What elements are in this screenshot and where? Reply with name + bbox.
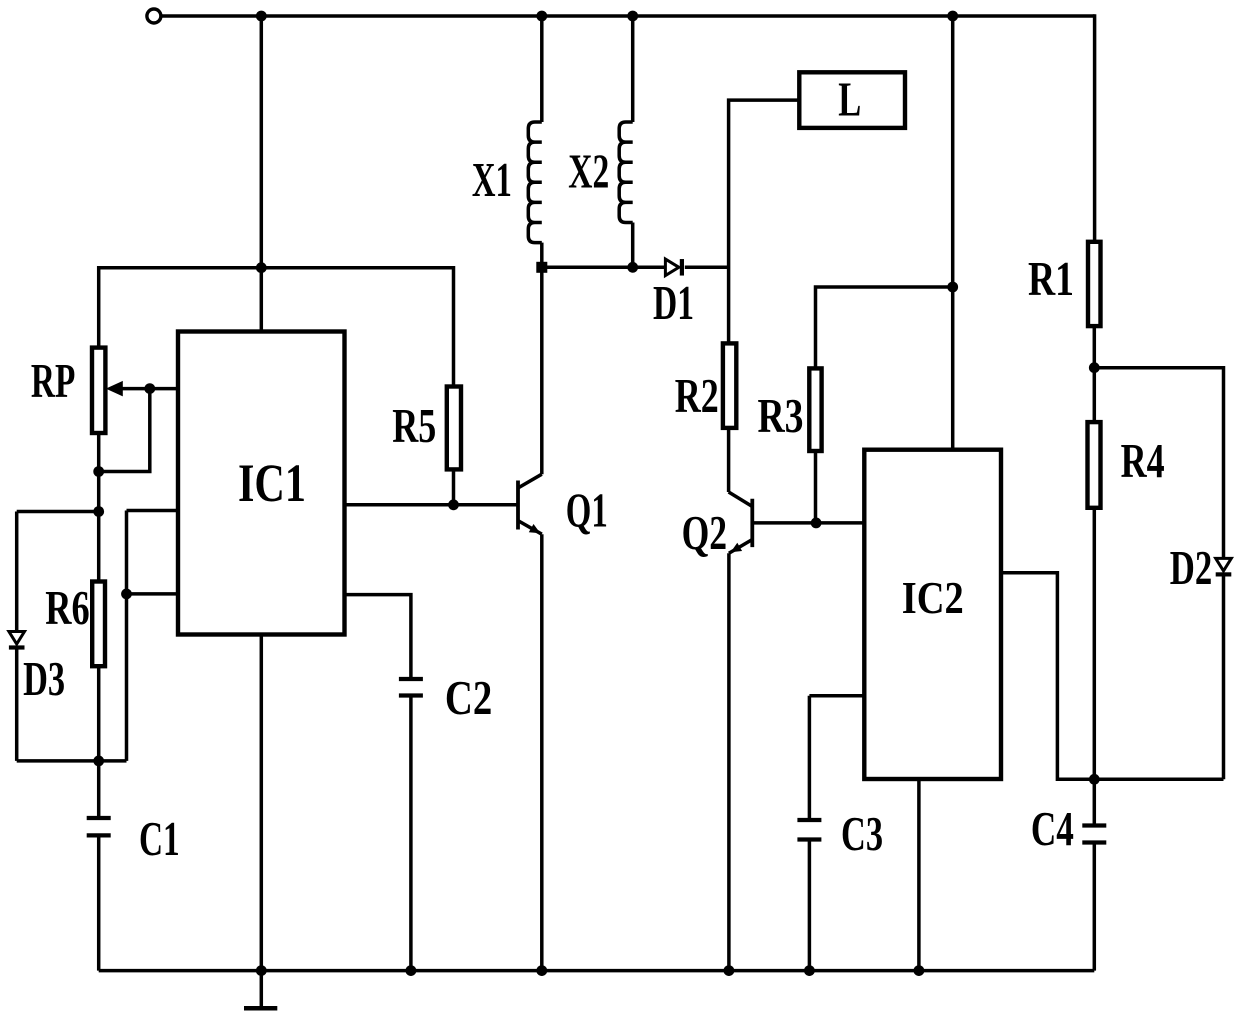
svg-text:Q2: Q2 (682, 507, 728, 560)
svg-text:R3: R3 (758, 390, 804, 443)
svg-text:RP: RP (31, 355, 75, 408)
svg-text:R1: R1 (1028, 253, 1074, 306)
svg-text:X1: X1 (472, 154, 512, 207)
svg-text:R5: R5 (392, 400, 436, 453)
svg-text:D1: D1 (653, 277, 694, 330)
svg-text:C4: C4 (1031, 803, 1074, 856)
svg-text:D2: D2 (1170, 542, 1213, 595)
svg-text:IC1: IC1 (238, 453, 306, 513)
svg-text:X2: X2 (568, 146, 609, 199)
svg-text:C2: C2 (445, 672, 492, 725)
svg-text:R4: R4 (1121, 435, 1165, 488)
svg-text:R6: R6 (45, 582, 89, 635)
svg-text:C3: C3 (841, 808, 883, 861)
svg-text:L: L (838, 74, 861, 127)
svg-text:R2: R2 (675, 370, 719, 423)
svg-text:IC2: IC2 (902, 572, 964, 623)
svg-text:Q1: Q1 (566, 485, 608, 538)
svg-text:C1: C1 (139, 813, 180, 866)
svg-text:D3: D3 (23, 653, 65, 706)
